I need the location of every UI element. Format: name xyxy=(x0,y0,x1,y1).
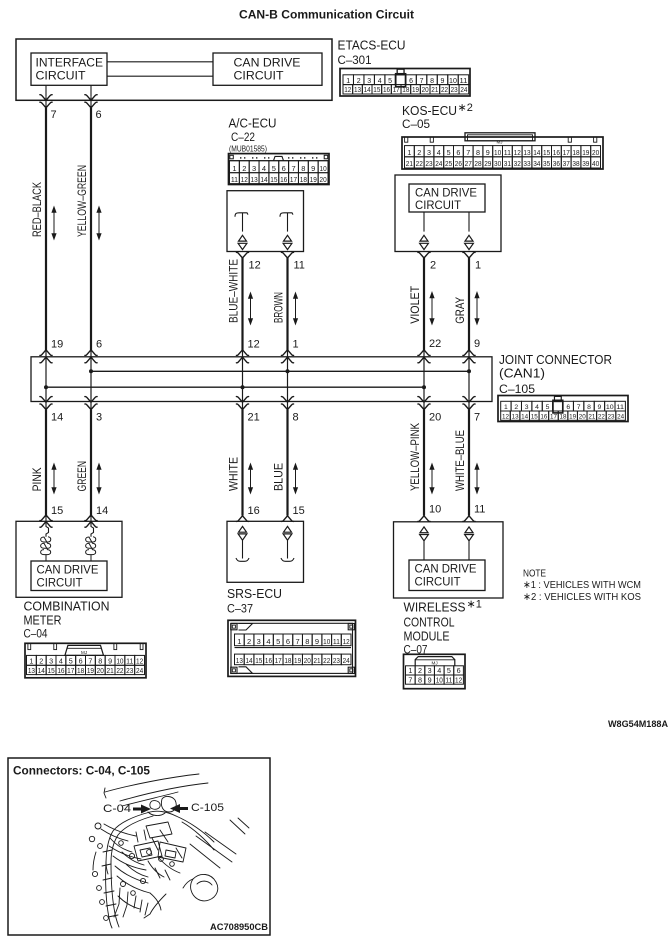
svg-text:12: 12 xyxy=(502,414,509,421)
svg-text:12: 12 xyxy=(248,339,260,351)
svg-text:5: 5 xyxy=(447,666,451,675)
pin label 6 above joint connector xyxy=(96,339,102,351)
svg-text:10: 10 xyxy=(449,78,457,85)
CAN drive circuit box (KOS) xyxy=(409,184,485,212)
svg-text:7: 7 xyxy=(296,637,300,646)
pin label 19 above joint connector xyxy=(51,339,63,351)
svg-text:16: 16 xyxy=(248,505,260,517)
svg-text:14: 14 xyxy=(51,412,63,424)
meter entry terminal x=46 xyxy=(40,515,52,537)
svg-text:11: 11 xyxy=(504,148,511,157)
A/C-ECU body box xyxy=(227,191,304,252)
pin label 14 xyxy=(96,505,108,517)
svg-text:8: 8 xyxy=(301,164,305,173)
wire BLUE lower segment xyxy=(272,410,298,516)
svg-text:1: 1 xyxy=(408,666,412,675)
svg-text:1: 1 xyxy=(293,339,299,351)
wire ETACS pin 7 stub xyxy=(40,85,52,108)
svg-text:14: 14 xyxy=(260,175,267,184)
svg-text:∗1: ∗1 xyxy=(467,599,482,611)
svg-text:19: 19 xyxy=(87,666,94,675)
svg-text:13: 13 xyxy=(251,175,258,184)
svg-text:12: 12 xyxy=(249,260,261,272)
svg-text:KOS-ECU: KOS-ECU xyxy=(402,104,457,118)
svg-text:GREEN: GREEN xyxy=(75,461,89,492)
svg-text:3: 3 xyxy=(428,666,432,675)
svg-text:6: 6 xyxy=(286,637,290,646)
pin label 12 above joint connector xyxy=(248,339,260,351)
svg-text:14: 14 xyxy=(96,505,108,517)
svg-text:24: 24 xyxy=(617,414,624,421)
svg-text:16: 16 xyxy=(265,656,272,665)
svg-text:16: 16 xyxy=(383,87,390,94)
svg-text:10: 10 xyxy=(319,164,326,173)
svg-text:WHITE: WHITE xyxy=(227,457,241,491)
svg-text:24: 24 xyxy=(343,656,350,665)
svg-text:36: 36 xyxy=(553,159,560,168)
svg-text:16: 16 xyxy=(57,666,64,675)
svg-text:MODULE: MODULE xyxy=(404,630,450,644)
svg-text:22: 22 xyxy=(416,159,423,168)
svg-text:12: 12 xyxy=(514,148,521,157)
pin label 16 xyxy=(248,505,260,517)
svg-text:19: 19 xyxy=(51,339,63,351)
CAN drive circuit box (wireless) xyxy=(409,560,485,591)
pin label 15 xyxy=(51,505,63,517)
coil (meter) x=46 xyxy=(41,537,51,561)
wire ETACS pin 6 stub xyxy=(85,85,97,108)
svg-text:7: 7 xyxy=(291,164,295,173)
svg-text:23: 23 xyxy=(126,666,133,675)
CAN_H bus (upper) xyxy=(91,370,469,372)
svg-text:7: 7 xyxy=(474,412,480,424)
pin label 8 below joint connector xyxy=(293,412,299,424)
interface circuit box xyxy=(31,53,107,85)
pin label 7 xyxy=(51,109,57,121)
connector C-37 (24 pin) xyxy=(228,620,356,676)
svg-text:22: 22 xyxy=(116,666,123,675)
pin label 12 xyxy=(249,260,261,272)
joint connector pass-through wire x=424 xyxy=(418,350,430,410)
svg-text:24: 24 xyxy=(435,159,442,168)
svg-text:4: 4 xyxy=(437,148,441,157)
pin label 22 above joint connector xyxy=(429,338,441,350)
A/C-ECU labels xyxy=(229,116,277,153)
svg-text:RED–BLACK: RED–BLACK xyxy=(30,182,44,237)
svg-text:C–04: C–04 xyxy=(24,629,49,641)
svg-text:16: 16 xyxy=(553,148,560,157)
svg-text:Connectors: C-04, C-105: Connectors: C-04, C-105 xyxy=(13,766,151,778)
A/C pin 11 exit xyxy=(281,252,293,258)
svg-text:BLUE: BLUE xyxy=(272,463,286,491)
svg-text:3: 3 xyxy=(252,164,256,173)
svg-text:9: 9 xyxy=(108,657,112,666)
svg-text:12: 12 xyxy=(241,175,248,184)
pin label 6 xyxy=(96,109,102,121)
svg-text:5: 5 xyxy=(272,164,276,173)
svg-text:5: 5 xyxy=(447,148,451,157)
svg-text:2: 2 xyxy=(242,164,246,173)
svg-text:14: 14 xyxy=(38,666,45,675)
svg-text:6: 6 xyxy=(409,78,413,85)
bus junction dots upper xyxy=(89,369,471,373)
combination meter labels xyxy=(24,600,110,641)
svg-text:20: 20 xyxy=(429,412,441,424)
wireless control module labels xyxy=(404,599,482,657)
svg-text:8: 8 xyxy=(418,675,422,684)
svg-text:32: 32 xyxy=(514,159,521,168)
svg-text:9: 9 xyxy=(486,148,490,157)
svg-text:14: 14 xyxy=(246,656,253,665)
svg-text:30: 30 xyxy=(494,159,501,168)
svg-text:C–105: C–105 xyxy=(499,384,535,396)
svg-text:6: 6 xyxy=(96,109,102,121)
svg-text:4: 4 xyxy=(266,637,270,646)
svg-text:14: 14 xyxy=(521,414,528,421)
wire YELLOW-GREEN upper segment xyxy=(75,108,101,350)
svg-text:CAN DRIVE: CAN DRIVE xyxy=(37,565,99,577)
svg-text:20: 20 xyxy=(304,656,311,665)
svg-text:11: 11 xyxy=(294,260,305,272)
svg-text:9: 9 xyxy=(441,78,445,85)
svg-text:22: 22 xyxy=(598,414,605,421)
svg-text:W8G54M188A: W8G54M188A xyxy=(608,719,668,730)
svg-text:11: 11 xyxy=(616,404,624,411)
svg-text:8: 8 xyxy=(587,404,591,411)
svg-text:35: 35 xyxy=(543,159,550,168)
svg-text:12: 12 xyxy=(343,637,350,646)
svg-text:15: 15 xyxy=(293,505,305,517)
svg-text:34: 34 xyxy=(533,159,540,168)
svg-text:JOINT CONNECTOR: JOINT CONNECTOR xyxy=(499,353,612,367)
svg-text:7: 7 xyxy=(420,78,424,85)
svg-text:15: 15 xyxy=(543,148,550,157)
svg-text:20: 20 xyxy=(592,148,599,157)
CAN drive circuit box (ETACS) xyxy=(213,53,322,85)
svg-text:METER: METER xyxy=(24,614,62,628)
svg-text:18: 18 xyxy=(560,414,567,421)
svg-text:11: 11 xyxy=(460,78,468,85)
svg-text:11: 11 xyxy=(126,657,133,666)
svg-text:13: 13 xyxy=(523,148,530,157)
svg-text:31: 31 xyxy=(504,159,511,168)
svg-text:9: 9 xyxy=(315,637,319,646)
svg-text:∗1 : VEHICLES WITH WCM: ∗1 : VEHICLES WITH WCM xyxy=(523,579,641,591)
svg-text:23: 23 xyxy=(333,656,340,665)
wire YELLOW-PINK lower segment xyxy=(408,410,434,516)
svg-text:4: 4 xyxy=(437,666,441,675)
wire WHITE-BLUE lower segment xyxy=(453,410,479,516)
svg-text:24: 24 xyxy=(136,666,143,675)
pin label 15 xyxy=(293,505,305,517)
svg-text:18: 18 xyxy=(300,175,307,184)
svg-text:12: 12 xyxy=(344,87,351,94)
svg-text:10: 10 xyxy=(429,504,441,516)
svg-text:CIRCUIT: CIRCUIT xyxy=(415,577,461,589)
svg-text:2: 2 xyxy=(430,260,436,272)
wire BROWN upper segment xyxy=(272,258,298,350)
svg-text:9: 9 xyxy=(474,338,480,350)
svg-text:10: 10 xyxy=(606,404,614,411)
combination meter body box xyxy=(16,521,122,597)
svg-text:8: 8 xyxy=(476,148,480,157)
svg-text:PINK: PINK xyxy=(30,467,44,491)
svg-text:14: 14 xyxy=(533,148,540,157)
connector C-301 (24 pin) xyxy=(340,69,470,97)
SRS entry terminal x=287.5 xyxy=(281,516,294,562)
svg-text:1: 1 xyxy=(237,637,241,646)
joint connector C-105 box xyxy=(31,357,492,402)
svg-text:5: 5 xyxy=(276,637,280,646)
connector location title xyxy=(13,766,151,778)
svg-text:3: 3 xyxy=(367,78,371,85)
svg-text:1: 1 xyxy=(346,78,350,85)
svg-text:CIRCUIT: CIRCUIT xyxy=(37,578,83,590)
wire BLUE-WHITE upper segment xyxy=(227,258,253,350)
meter entry terminal x=91 xyxy=(85,515,97,537)
svg-text:16: 16 xyxy=(280,175,287,184)
svg-text:24: 24 xyxy=(460,87,467,94)
svg-text:3: 3 xyxy=(427,148,431,157)
svg-text:∗2: ∗2 xyxy=(458,102,473,114)
A/C pin 12 exit xyxy=(236,252,248,258)
svg-text:15: 15 xyxy=(51,505,63,517)
svg-text:6: 6 xyxy=(282,164,286,173)
SRS-ECU labels xyxy=(227,587,282,616)
joint connector pass-through wire x=91 xyxy=(85,350,97,410)
svg-text:40: 40 xyxy=(592,159,599,168)
svg-text:19: 19 xyxy=(582,148,589,157)
svg-text:1: 1 xyxy=(504,404,508,411)
pin label 1 xyxy=(475,260,481,272)
svg-text:CIRCUIT: CIRCUIT xyxy=(415,200,461,212)
pin label 9 above joint connector xyxy=(474,338,480,350)
joint connector pass-through wire x=242.5 xyxy=(236,350,248,410)
svg-text:15: 15 xyxy=(270,175,277,184)
KOS-ECU body box xyxy=(395,175,501,252)
svg-text:18: 18 xyxy=(77,666,84,675)
svg-text:21: 21 xyxy=(431,87,438,94)
coil (meter) x=91 xyxy=(86,537,96,561)
svg-text:13: 13 xyxy=(354,87,361,94)
svg-text:21: 21 xyxy=(313,656,320,665)
svg-text:7: 7 xyxy=(88,657,92,666)
svg-text:3: 3 xyxy=(525,404,529,411)
pin label 11 xyxy=(474,504,485,516)
svg-text:12: 12 xyxy=(136,657,143,666)
svg-text:26: 26 xyxy=(455,159,462,168)
pin label 7 below joint connector xyxy=(474,412,480,424)
svg-text:10: 10 xyxy=(323,637,330,646)
svg-text:10: 10 xyxy=(436,675,443,684)
svg-text:8: 8 xyxy=(293,412,299,424)
svg-text:GRAY: GRAY xyxy=(453,297,467,324)
svg-text:7: 7 xyxy=(408,675,412,684)
svg-text:6: 6 xyxy=(457,666,461,675)
connector C-105 drawing (24 pin) xyxy=(498,396,628,422)
A/C internal terminal x=242.5 xyxy=(235,213,248,250)
wire VIOLET upper segment xyxy=(408,258,434,350)
svg-text:13: 13 xyxy=(28,666,35,675)
harness illustration xyxy=(89,774,249,928)
svg-text:CIRCUIT: CIRCUIT xyxy=(36,71,86,83)
svg-text:2: 2 xyxy=(247,637,251,646)
svg-text:2: 2 xyxy=(417,148,421,157)
svg-text:8: 8 xyxy=(98,657,102,666)
KOS pin 1 exit xyxy=(463,252,475,258)
pin label 1 above joint connector xyxy=(293,339,299,351)
svg-text:3: 3 xyxy=(96,412,102,424)
svg-text:10: 10 xyxy=(116,657,123,666)
ETACS-ECU label xyxy=(338,39,406,68)
C-105 callout xyxy=(170,802,224,814)
SRS entry terminal x=242.5 xyxy=(236,516,249,562)
svg-text:NOTE: NOTE xyxy=(523,568,546,580)
svg-text:21: 21 xyxy=(106,666,113,675)
svg-text:C–37: C–37 xyxy=(227,604,253,616)
KOS internal terminal x=469 xyxy=(465,212,474,250)
connector location box xyxy=(8,758,270,935)
pin label 3 below joint connector xyxy=(96,412,102,424)
svg-text:23: 23 xyxy=(425,159,432,168)
svg-text:33: 33 xyxy=(523,159,530,168)
KOS internal terminal x=424 xyxy=(420,212,429,250)
svg-text:7: 7 xyxy=(466,148,470,157)
connector C-05 (40 pin) xyxy=(402,133,603,169)
svg-text:28: 28 xyxy=(474,159,481,168)
svg-text:11: 11 xyxy=(231,175,238,184)
svg-text:6: 6 xyxy=(79,657,83,666)
svg-text:17: 17 xyxy=(563,148,570,157)
connector C-22 (20 pin) xyxy=(229,154,330,185)
svg-text:8: 8 xyxy=(305,637,309,646)
wire interface to CAN drive (2 lines) xyxy=(107,62,213,76)
svg-text:2: 2 xyxy=(357,78,361,85)
svg-text:19: 19 xyxy=(310,175,317,184)
svg-text:37: 37 xyxy=(563,159,570,168)
wire PINK lower segment xyxy=(30,410,56,516)
svg-text:3: 3 xyxy=(49,657,53,666)
svg-text:17: 17 xyxy=(290,175,297,184)
KOS-ECU labels xyxy=(402,102,473,131)
svg-text:16: 16 xyxy=(540,414,547,421)
A/C internal terminal x=287.5 xyxy=(280,213,293,250)
svg-text:6: 6 xyxy=(456,148,460,157)
svg-text:CAN DRIVE: CAN DRIVE xyxy=(234,58,301,70)
svg-text:18: 18 xyxy=(402,87,409,94)
svg-text:20: 20 xyxy=(97,666,104,675)
svg-text:CAN DRIVE: CAN DRIVE xyxy=(415,188,477,200)
svg-text:5: 5 xyxy=(546,404,550,411)
svg-text:C–05: C–05 xyxy=(402,119,430,131)
svg-text:9: 9 xyxy=(428,675,432,684)
SRS-ECU body box xyxy=(227,521,304,582)
svg-text:11: 11 xyxy=(333,637,340,646)
wire GREEN lower segment xyxy=(75,410,101,516)
svg-text:6: 6 xyxy=(96,339,102,351)
svg-text:10: 10 xyxy=(494,148,501,157)
connector C-07 (12 pin) xyxy=(404,654,466,688)
svg-text:18: 18 xyxy=(572,148,579,157)
svg-text:15: 15 xyxy=(373,87,380,94)
svg-text:38: 38 xyxy=(572,159,579,168)
svg-text:6: 6 xyxy=(566,404,570,411)
svg-text:14: 14 xyxy=(364,87,371,94)
svg-text:21: 21 xyxy=(406,159,413,168)
joint connector pass-through wire x=287.5 xyxy=(281,350,293,410)
svg-text:11: 11 xyxy=(445,675,452,684)
svg-text:19: 19 xyxy=(294,656,301,665)
svg-text:15: 15 xyxy=(47,666,54,675)
svg-text:MJ: MJ xyxy=(81,650,87,655)
svg-text:A/C-ECU: A/C-ECU xyxy=(229,116,277,130)
svg-text:INTERFACE: INTERFACE xyxy=(36,58,104,70)
CAN drive circuit box (meter) xyxy=(31,561,107,591)
svg-text:39: 39 xyxy=(582,159,589,168)
svg-text:C–301: C–301 xyxy=(338,55,372,67)
title xyxy=(239,8,414,22)
wire RED-BLACK upper segment xyxy=(30,108,56,350)
pin label 14 below joint connector xyxy=(51,412,63,424)
svg-text:17: 17 xyxy=(393,87,400,94)
note block xyxy=(523,568,641,604)
svg-text:1: 1 xyxy=(232,164,236,173)
svg-text:(MUB01585): (MUB01585) xyxy=(229,145,267,154)
svg-text:4: 4 xyxy=(59,657,63,666)
CAN_L bus (lower) xyxy=(46,386,424,388)
svg-text:13: 13 xyxy=(512,414,519,421)
svg-text:15: 15 xyxy=(531,414,538,421)
svg-text:MJ: MJ xyxy=(497,140,503,145)
svg-text:17: 17 xyxy=(275,656,282,665)
svg-text:23: 23 xyxy=(608,414,615,421)
joint connector pass-through wire x=46 xyxy=(40,350,52,410)
svg-text:3: 3 xyxy=(257,637,261,646)
svg-text:7: 7 xyxy=(577,404,581,411)
svg-text:2: 2 xyxy=(418,666,422,675)
wire WHITE lower segment xyxy=(227,410,253,516)
svg-text:21: 21 xyxy=(248,412,260,424)
svg-text:5: 5 xyxy=(388,78,392,85)
pin label 21 below joint connector xyxy=(248,412,260,424)
joint connector labels xyxy=(499,353,612,396)
svg-text:2: 2 xyxy=(39,657,43,666)
svg-text:13: 13 xyxy=(236,656,243,665)
svg-text:CIRCUIT: CIRCUIT xyxy=(234,71,284,83)
svg-text:20: 20 xyxy=(319,175,326,184)
ETACS-ECU body box xyxy=(16,39,332,100)
svg-text:20: 20 xyxy=(579,414,586,421)
pin label 11 xyxy=(294,260,305,272)
svg-text:8: 8 xyxy=(430,78,434,85)
connector C-04 (24 pin) xyxy=(25,643,146,678)
svg-text:11: 11 xyxy=(474,504,485,516)
svg-text:9: 9 xyxy=(598,404,602,411)
figure code xyxy=(210,922,268,933)
svg-text:12: 12 xyxy=(455,675,462,684)
svg-text:AC708950CB: AC708950CB xyxy=(210,922,268,933)
svg-text:BROWN: BROWN xyxy=(272,292,286,323)
svg-text:MJ: MJ xyxy=(432,661,438,666)
svg-text:27: 27 xyxy=(465,159,472,168)
svg-text:20: 20 xyxy=(422,87,429,94)
svg-text:ETACS-ECU: ETACS-ECU xyxy=(338,39,406,53)
svg-text:22: 22 xyxy=(429,338,441,350)
svg-text:CAN DRIVE: CAN DRIVE xyxy=(415,564,477,576)
svg-text:17: 17 xyxy=(67,666,74,675)
svg-text:7: 7 xyxy=(51,109,57,121)
svg-text:18: 18 xyxy=(284,656,291,665)
